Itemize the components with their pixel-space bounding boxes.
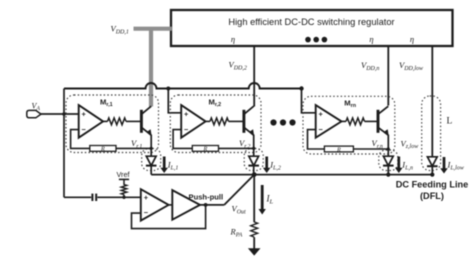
resistor base R2 xyxy=(210,118,228,125)
stage 2 dotted diode neck xyxy=(244,149,263,171)
VDD,1 thick supply wire xyxy=(134,29,172,107)
current arrow I_L xyxy=(259,185,266,215)
transistor Q2 xyxy=(244,106,254,135)
wire opamp1 output xyxy=(103,120,107,122)
label R_PA xyxy=(230,227,243,239)
ellipsis dots inside regulator xyxy=(305,37,327,43)
wire Q3 emitter to node xyxy=(387,135,389,157)
current arrow I_L,3 xyxy=(395,157,403,174)
wire output diagonal to main node xyxy=(224,175,254,205)
label VA xyxy=(32,101,41,112)
stage 3 dotted enclosure xyxy=(303,96,395,154)
wire opamp2 inverting feedback xyxy=(173,130,192,149)
label (DFL) xyxy=(420,191,444,201)
label Vr,2 xyxy=(239,138,250,150)
label I_L xyxy=(266,194,274,206)
svg-text:+: + xyxy=(184,110,189,119)
svg-text:−: − xyxy=(319,125,324,134)
efficiency label eta 2 xyxy=(369,34,373,44)
wire resistor to Q3 base xyxy=(365,120,379,122)
label Vr,n xyxy=(372,138,383,150)
wire VA to opamp1 xyxy=(41,113,79,115)
wire left vertical trunk xyxy=(63,89,65,198)
wire pushpull feedback loop xyxy=(132,205,206,229)
wire RPA to ground xyxy=(253,237,255,248)
wire D_low to bottom bus xyxy=(431,165,433,174)
wire resistor to Q2 base xyxy=(229,120,244,122)
stage 1 dotted diode neck xyxy=(142,149,161,171)
wire Q2 emitter to node xyxy=(253,135,255,157)
svg-text:R: R xyxy=(100,146,105,153)
wire opamp3 inverting feedback xyxy=(308,130,325,149)
diode D1 xyxy=(146,156,157,165)
resistor feedback R2 box xyxy=(192,146,218,153)
VDD,low supply wire xyxy=(431,46,433,157)
wire feedback R3 to emitter xyxy=(353,148,388,150)
wire capacitor to pushpull input xyxy=(97,196,140,198)
efficiency label eta 3 xyxy=(410,34,414,44)
svg-text:+: + xyxy=(144,193,149,202)
label L inductor xyxy=(447,117,453,127)
node junction bus corner stage3 xyxy=(299,86,303,90)
node junction Vr,2 xyxy=(252,147,255,150)
resistor feedback R1 box xyxy=(90,146,116,153)
node junction DFL at bus xyxy=(430,173,434,177)
ground symbol xyxy=(248,248,261,255)
regulator title text xyxy=(228,17,394,27)
svg-text:Vref: Vref xyxy=(116,170,130,179)
node junction diode n at bus xyxy=(386,173,390,177)
label Vz,low xyxy=(401,138,419,150)
op-amp A3 xyxy=(316,105,342,138)
label I_L,n xyxy=(401,160,413,172)
wire feedback R1 to emitter xyxy=(116,147,151,149)
resistor R_ref xyxy=(121,185,127,195)
svg-text:Push-pull: Push-pull xyxy=(189,192,224,201)
wire Rref to input node xyxy=(123,195,125,198)
VDD,2 supply wire xyxy=(253,46,255,107)
wire top input bus with crossover hops xyxy=(64,83,302,89)
label V_Out xyxy=(232,204,247,216)
op-amp A2 xyxy=(181,105,205,138)
transistor Q3 xyxy=(378,106,389,135)
svg-text:(DFL): (DFL) xyxy=(420,191,444,201)
transistor Q1 xyxy=(141,106,151,135)
wire bus drop to opamp3 input xyxy=(302,89,316,113)
svg-text:L: L xyxy=(447,117,453,127)
wire pushpull output xyxy=(200,204,224,206)
resistor R_PA xyxy=(251,222,258,237)
svg-text:−: − xyxy=(144,208,149,217)
label I_L,1 xyxy=(167,160,179,172)
wire diode D2 to bottom bus xyxy=(253,165,255,175)
svg-text:η: η xyxy=(410,34,414,44)
resistor feedback R3 box xyxy=(324,146,353,153)
stage 1 dotted enclosure xyxy=(66,95,159,153)
label I_L,low xyxy=(447,160,464,172)
label Vref xyxy=(116,170,130,179)
diode D_low xyxy=(427,157,438,166)
Vref supply tick xyxy=(119,179,129,185)
wire input lowpass run xyxy=(64,196,91,198)
ellipsis dots between stages xyxy=(270,119,295,125)
wire main node to RPA xyxy=(253,175,255,223)
node junction Vr,1 xyxy=(150,147,153,150)
svg-text:η: η xyxy=(231,34,235,44)
label DC Feeding Line xyxy=(396,180,468,190)
current arrow I_L,1 xyxy=(160,157,168,174)
svg-text:+: + xyxy=(82,110,87,119)
label Mr,1 xyxy=(100,97,113,108)
svg-text:R: R xyxy=(336,146,341,153)
wire Q1 emitter to node xyxy=(150,135,152,157)
label I_L,2 xyxy=(269,160,281,172)
node junction VA split xyxy=(62,112,66,116)
node junction Vr,3 xyxy=(387,147,390,150)
op-amp A1 xyxy=(79,105,103,138)
wire opamp3 output xyxy=(342,120,347,122)
efficiency label eta 1 xyxy=(231,34,235,44)
node junction Vref tap xyxy=(122,196,125,199)
node junction pushpull output xyxy=(204,203,208,207)
label Mr,2 xyxy=(209,97,222,108)
stage 2 dotted enclosure xyxy=(170,95,261,153)
wire diode D3 to bottom bus xyxy=(387,165,389,175)
DC-DC switching regulator box U1 xyxy=(171,10,453,46)
wire opamp2 output xyxy=(206,120,210,122)
op-amp A_pp xyxy=(141,189,169,220)
node junction bus to stage2 xyxy=(166,87,170,91)
input terminal VA xyxy=(27,110,41,117)
label Push-pull xyxy=(189,192,224,201)
current arrow I_L,2 xyxy=(263,157,271,174)
label VDD,low xyxy=(399,60,423,72)
svg-text:+: + xyxy=(319,110,324,119)
capacitor C1 xyxy=(92,194,96,201)
DFL dotted enclosure xyxy=(422,96,441,171)
svg-text:−: − xyxy=(184,125,189,134)
current arrow I_L,low xyxy=(440,157,448,174)
diode D2 xyxy=(248,156,259,165)
VDD,n supply wire xyxy=(387,46,389,106)
wire bus drop to opamp2 input xyxy=(168,89,181,113)
label VDD,n xyxy=(361,60,379,72)
buffer stage triangle xyxy=(172,190,200,220)
node junction main output node xyxy=(252,172,257,177)
resistor base R1 xyxy=(108,118,127,125)
svg-text:DC Feeding Line: DC Feeding Line xyxy=(396,180,468,190)
svg-text:High efficient DC-DC switching: High efficient DC-DC switching regulator xyxy=(228,17,394,27)
wire opamp1 inverting feedback xyxy=(71,130,90,149)
svg-text:R: R xyxy=(203,146,208,153)
resistor base R3 xyxy=(346,118,365,125)
wire feedback R2 to emitter xyxy=(219,147,254,149)
label VDD,1 xyxy=(111,24,129,36)
svg-text:η: η xyxy=(369,34,373,44)
label Mrn xyxy=(344,99,356,110)
wire diode D1 to bottom bus xyxy=(150,165,152,175)
wire resistor to Q1 base xyxy=(126,120,141,122)
label Vr,1 xyxy=(131,138,142,150)
stage 3 dotted diode neck xyxy=(379,150,398,171)
svg-text:−: − xyxy=(82,125,87,134)
diode D3 xyxy=(383,156,394,165)
wire bottom collection bus xyxy=(151,174,432,176)
label VDD,2 xyxy=(229,60,247,72)
wire A_pp to buffer xyxy=(169,204,173,206)
